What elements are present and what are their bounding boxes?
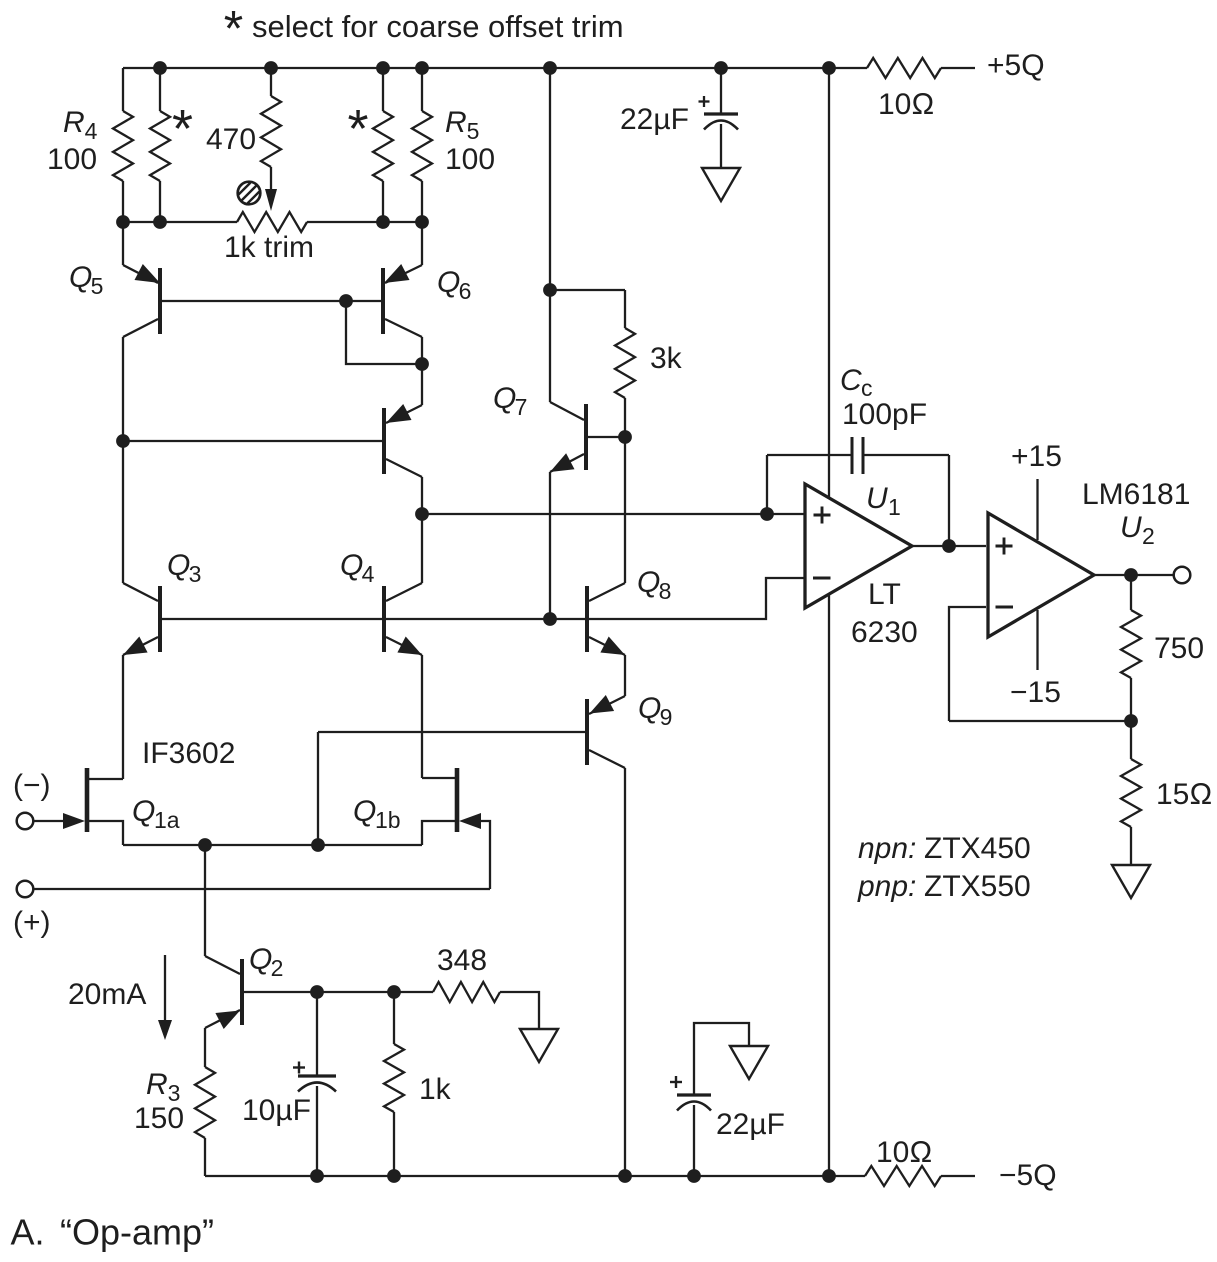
wire Q3 collector diagonal (123, 583, 158, 601)
svg-text:A.: A. (11, 1212, 45, 1253)
wire Cc right drop (948, 455, 950, 546)
wire -5Q lead (941, 1175, 975, 1177)
svg-text:9: 9 (660, 704, 673, 730)
svg-text:22µF: 22µF (620, 103, 689, 136)
node junction top rail / R5 (415, 61, 429, 75)
arrow 20mA current (164, 955, 166, 1021)
node Cc tap on + line (760, 507, 774, 521)
wire Q7 collector diagonal (550, 402, 584, 420)
svg-text:10µF: 10µF (242, 1094, 311, 1127)
transistor Q9 base bar (585, 699, 589, 765)
resistor select-star right (373, 111, 393, 181)
node Q2 base / 10uF (310, 985, 324, 999)
arrow Q7 emitter (npn) (550, 453, 575, 472)
arrow Q8 emitter (npn) (600, 637, 625, 656)
arrow Q5 emitter (pnp) (135, 264, 161, 283)
svg-text:10Ω: 10Ω (878, 88, 934, 121)
plus sign 10uF (293, 1066, 305, 1068)
resistor R4 (113, 111, 133, 181)
svg-text:6: 6 (459, 278, 472, 304)
svg-text:U: U (1120, 511, 1142, 544)
node Q7 emitter / base rail (543, 612, 557, 626)
wire U1 output (912, 545, 986, 547)
svg-text:15Ω: 15Ω (1156, 778, 1212, 811)
node cascode collector / U1+ line (415, 507, 429, 521)
wire Cc left lead (767, 454, 852, 456)
node junction top rail / Q7-3k branch (543, 61, 557, 75)
wire 22uF bottom lead (693, 1105, 695, 1176)
transistor Q5 base bar (158, 268, 162, 334)
wire Q6 collector diagonal (385, 319, 422, 337)
svg-text:4: 4 (85, 118, 98, 144)
wire (-) input lead (33, 820, 64, 822)
wire Q8 collector feed (624, 437, 626, 583)
svg-text:pnp:: pnp: (857, 870, 916, 903)
terminal (+) input circle (17, 881, 34, 898)
svg-text:Q: Q (340, 549, 363, 582)
svg-text:+5Q: +5Q (987, 49, 1045, 82)
arrow cascode emitter (pnp) (386, 404, 412, 423)
resistor 1k (384, 1044, 404, 1112)
svg-text:150: 150 (134, 1102, 184, 1135)
capacitor 22uF top (704, 112, 738, 115)
wire 750 top lead (1130, 575, 1132, 610)
wire U1 + input line (422, 513, 805, 515)
resistor 10ohm bottom (865, 1166, 941, 1186)
trim wiper adjust symbol (238, 182, 261, 205)
svg-text:1k trim: 1k trim (224, 231, 314, 264)
wire Q9 base line (318, 731, 585, 733)
node U1 output (942, 539, 956, 553)
wire Q5 emitter diagonal (123, 265, 158, 283)
svg-text:npn:: npn: (858, 832, 916, 865)
wire trim tie line right (307, 221, 422, 223)
transistor Q2 base bar (240, 959, 244, 1025)
wire (+) input line (33, 888, 490, 890)
svg-text:750: 750 (1154, 632, 1204, 665)
transistor Q1a channel bar (85, 768, 90, 832)
svg-text:100: 100 (47, 143, 97, 176)
wire star-right bottom lead (382, 181, 384, 222)
svg-text:select for coarse offset trim: select for coarse offset trim (252, 9, 624, 44)
node source rail / Q2 branch (198, 838, 212, 852)
wire Q8 collector diagonal (589, 583, 625, 601)
wire 22uF to ground jog (694, 1023, 749, 1095)
wire Q9 collector diagonal (589, 750, 625, 768)
transistor mirror-cascode base bar (382, 408, 386, 474)
wire R4 bottom lead (122, 181, 124, 222)
svg-text:10Ω: 10Ω (876, 1136, 932, 1169)
svg-text:Q: Q (353, 795, 376, 828)
svg-text:8: 8 (659, 578, 672, 604)
wire wiper arrow lead (270, 167, 272, 190)
wire Q7 emitter drop (549, 472, 551, 619)
transistor Q7 base bar (584, 404, 588, 470)
svg-text:U: U (866, 482, 888, 515)
wire U2 +15 lead (1036, 479, 1038, 540)
wire Q1a source lead (87, 821, 123, 845)
node star-right/tie (376, 215, 390, 229)
wire Q2 emitter diagonal (205, 1010, 240, 1028)
wire star resistor bottom lead (159, 181, 161, 222)
wire vertical supply rail (828, 68, 830, 1176)
svg-text:Q: Q (638, 692, 661, 725)
node R5/tie (415, 215, 429, 229)
wire Q9 base riser (317, 732, 319, 845)
wire +5Q lead (941, 67, 975, 69)
terminal (-) input circle (17, 813, 34, 830)
capacitor Cc plates (851, 437, 854, 474)
wire Q8 emitter diagonal (589, 637, 625, 655)
wire R5 top lead (421, 68, 423, 111)
wire inverting base rail (160, 578, 805, 619)
wire Q9 emitter diagonal (589, 696, 625, 714)
svg-text:−5Q: −5Q (999, 1159, 1057, 1192)
wire U2 - input jog (949, 607, 986, 721)
wire feedback line (949, 720, 1131, 722)
svg-text:Q: Q (493, 382, 516, 415)
svg-text:470: 470 (206, 123, 256, 156)
svg-text:*: * (172, 99, 193, 159)
wire 3k top lead (624, 290, 626, 328)
wire left column Q5-collector to Q3 (122, 337, 124, 583)
node 3k top tap (543, 283, 557, 297)
wire Q5-Q6 base rail (160, 300, 383, 302)
wire star resistor top lead (159, 68, 161, 111)
wire 750 bottom lead (1130, 678, 1132, 721)
node junction top rail / vertical supply rail (822, 61, 836, 75)
wire 10uF bottom lead (316, 1086, 318, 1176)
node rail/1k (387, 1169, 401, 1183)
svg-text:4: 4 (362, 561, 375, 587)
svg-text:1: 1 (888, 494, 901, 520)
svg-text:3k: 3k (650, 342, 683, 375)
wire Cc left riser (766, 455, 768, 514)
arrow Q1a gate (63, 813, 85, 829)
wire Q1b drain lead (422, 777, 457, 779)
wire 470 top lead (270, 68, 272, 96)
wire Q4 emitter diagonal (386, 637, 422, 655)
node junction top rail / star resistor right (376, 61, 390, 75)
node left column / cascode base (116, 434, 130, 448)
svg-text:*: * (224, 1, 243, 57)
plus sign 22uF top (699, 100, 710, 102)
ground symbol at bottom 22uF (730, 1046, 768, 1079)
node junction top rail / 470 resistor (264, 61, 278, 75)
plus sign 22uF bottom (670, 1081, 682, 1083)
wire Q2 collector riser (204, 845, 206, 956)
wire 1k top lead (393, 992, 395, 1044)
resistor 3k (615, 328, 635, 398)
wire Q5 emitter feed (122, 222, 124, 265)
resistor 10ohm top (867, 58, 941, 78)
wire cascode emitter diagonal (386, 405, 422, 423)
wire R3 top lead (204, 1028, 206, 1067)
wire Q3 emitter to Q1a drain (122, 655, 124, 779)
node rail/10uF (310, 1169, 324, 1183)
wire 10uF top lead (316, 992, 318, 1076)
svg-text:LM6181: LM6181 (1082, 478, 1190, 511)
arrow Q9 emitter (pnp) (590, 695, 615, 714)
svg-text:Q: Q (437, 266, 460, 299)
svg-text:7: 7 (515, 394, 528, 420)
wire Q2 base line (244, 991, 433, 993)
node source rail / Q9 base branch (311, 838, 325, 852)
svg-text:100: 100 (445, 143, 495, 176)
svg-text:5: 5 (91, 273, 104, 299)
wire 22uF top gnd lead (720, 124, 722, 168)
node U2 output / 750 (1124, 568, 1138, 582)
wire Q4 collector diagonal (386, 583, 422, 601)
wire cascode collector drop (421, 477, 423, 514)
ground symbol at 348 (520, 1029, 558, 1062)
wire 15ohm bottom lead (1130, 827, 1132, 865)
wire 3k bottom lead (624, 398, 626, 437)
svg-text:Q: Q (69, 261, 92, 294)
svg-text:1b: 1b (375, 807, 401, 833)
arrow Q2 emitter (pnp) (215, 1011, 240, 1030)
wire base tie jog (346, 301, 422, 364)
svg-text:Q: Q (637, 566, 660, 599)
wire Q6 collector drop (421, 337, 423, 364)
node rail/Q9 collector (618, 1169, 632, 1183)
wire R5 bottom lead (421, 181, 423, 222)
svg-text:Q: Q (249, 943, 272, 976)
node rail/vertical supply (822, 1169, 836, 1183)
wire Q4 emitter to Q1b drain (421, 655, 423, 778)
wire Q1b source lead (422, 821, 457, 845)
wire Q3 emitter diagonal (123, 637, 158, 655)
potentiometer 1k trim (237, 212, 307, 232)
ground symbol top 22uF (702, 168, 740, 201)
wire Q1b gate jog (480, 821, 490, 889)
wire cascode collector diagonal (386, 459, 422, 477)
capacitor 10uF (298, 1074, 336, 1077)
arrow Q4 emitter (npn) (397, 637, 422, 656)
svg-text:LT: LT (868, 578, 901, 611)
arrow Q1b gate (459, 813, 481, 829)
node star/tie (153, 215, 167, 229)
svg-text:ZTX550: ZTX550 (924, 870, 1031, 903)
node 3k / Q7 base / Q8 collector (618, 430, 632, 444)
svg-text:IF3602: IF3602 (142, 737, 235, 770)
wire 22uF top lead (720, 68, 722, 114)
resistor select-star left (150, 111, 170, 181)
svg-text:R: R (445, 106, 467, 139)
svg-text:1a: 1a (154, 807, 180, 833)
op-amp U1 (805, 484, 912, 608)
node junction top rail / 22uF (714, 61, 728, 75)
wire U2 -15 lead (1036, 610, 1038, 670)
svg-text:*: * (347, 99, 368, 159)
wire +5V top rail (123, 67, 867, 69)
terminal output circle (1174, 567, 1191, 584)
ground symbol at 15ohm (1112, 865, 1150, 898)
node junction top rail / star resistor (153, 61, 167, 75)
transistor Q6 base bar (381, 268, 385, 334)
svg-text:348: 348 (437, 944, 487, 977)
svg-text:1k: 1k (419, 1073, 452, 1106)
node 750/15ohm feedback (1124, 714, 1138, 728)
wire Q7 emitter diagonal (550, 454, 584, 472)
resistor 750 (1121, 610, 1141, 678)
svg-text:20mA: 20mA (68, 978, 146, 1011)
svg-text:Q: Q (167, 549, 190, 582)
svg-text:3: 3 (189, 561, 202, 587)
wire Cc right lead (863, 454, 949, 456)
transistor Q3 base bar (158, 586, 162, 652)
resistor 470 (261, 96, 281, 167)
wire cascode base line (123, 440, 382, 442)
wire common source rail (123, 844, 422, 846)
wire Q8-Q9 emitter link (624, 655, 626, 696)
resistor R3 (195, 1067, 215, 1138)
resistor 348 (433, 982, 500, 1002)
svg-text:(+): (+) (13, 906, 51, 939)
node Q6 collector / base tie (415, 357, 429, 371)
svg-text:2: 2 (271, 955, 284, 981)
wire Q1a drain lead (87, 778, 123, 780)
node Q2 base / 1k (387, 985, 401, 999)
svg-text:5: 5 (467, 118, 480, 144)
resistor R5 (412, 111, 432, 181)
wire Q9 collector drop (624, 768, 626, 1176)
svg-text:Q: Q (132, 795, 155, 828)
wire Q5 collector diagonal (123, 319, 158, 337)
svg-text:2: 2 (1142, 523, 1155, 549)
svg-text:R: R (63, 106, 85, 139)
wire trim tie line left (123, 221, 237, 223)
wiper arrow onto 1k trim (265, 189, 277, 211)
node rail/22uF bottom (687, 1169, 701, 1183)
wire mirror cascode emitter feed (421, 364, 423, 405)
resistor 15ohm (1121, 759, 1141, 827)
node base rail tie-down (339, 294, 353, 308)
wire Q7 base lead (587, 436, 625, 438)
svg-text:+15: +15 (1011, 440, 1062, 473)
capacitor 22uF bottom (677, 1093, 711, 1096)
transistor Q8 base bar (585, 586, 589, 652)
transistor Q1b channel bar (455, 768, 460, 832)
wire R4 top lead (122, 68, 124, 111)
arrow Q6 emitter (pnp) (384, 264, 410, 283)
wire 3k top feed (550, 289, 625, 291)
svg-text:ZTX450: ZTX450 (924, 832, 1031, 865)
wire 348 to ground jog (500, 992, 539, 1029)
wire -5V bottom rail (205, 1175, 865, 1177)
wire R3 bottom lead (204, 1138, 206, 1176)
svg-text:“Op-amp”: “Op-amp” (60, 1212, 214, 1253)
svg-text:6230: 6230 (851, 616, 918, 649)
op-amp U2 (988, 513, 1094, 637)
node R4/tie (116, 215, 130, 229)
svg-text:R: R (146, 1068, 168, 1101)
wire Q7 collector column (549, 68, 551, 402)
svg-text:−15: −15 (1010, 676, 1061, 709)
arrow Q3 emitter (npn) (123, 637, 148, 656)
svg-text:(−): (−) (13, 769, 51, 802)
svg-text:100pF: 100pF (842, 398, 927, 431)
svg-text:22µF: 22µF (716, 1108, 785, 1141)
wire U2 output (1094, 574, 1173, 576)
wire Q6 emitter diagonal (385, 265, 422, 283)
wire Q4 collector feed (421, 514, 423, 583)
wire 15ohm top lead (1130, 721, 1132, 759)
transistor Q4 base bar (382, 586, 386, 652)
wire 1k bottom lead (393, 1112, 395, 1176)
wire star-right top lead (382, 68, 384, 111)
wire Q6 emitter feed (421, 222, 423, 265)
svg-text:C: C (840, 364, 862, 397)
wire Q2 collector diagonal (205, 956, 240, 974)
